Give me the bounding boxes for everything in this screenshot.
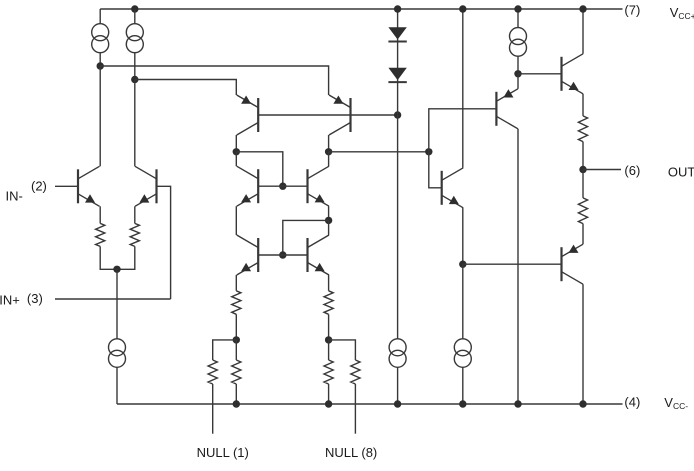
wire node C to base tie <box>236 152 282 186</box>
wire Q7 emitter to R3 <box>235 275 237 291</box>
wire Q14 emitter to R9 <box>582 94 584 116</box>
wire I2 to node B <box>134 52 136 79</box>
resistor R7 <box>324 360 333 384</box>
svg-text:(4): (4) <box>624 395 640 410</box>
wire I6 to VCC- rail <box>462 367 464 404</box>
wire R8 to NULL 8 pin <box>354 384 356 434</box>
wire Q2 emitter to R2 <box>134 206 136 223</box>
wire node E to base tie <box>283 220 329 255</box>
wire Q6 emitter to node E <box>328 206 330 220</box>
junction top rail diodes <box>394 5 401 12</box>
node Q5 Q6 base junction <box>279 183 286 190</box>
transistor Q8 <box>308 235 330 275</box>
wire node G to I6 <box>462 264 464 339</box>
wire IN+ line <box>55 298 171 300</box>
diode D2 <box>388 68 406 82</box>
wire Q5 collector riser <box>235 152 237 166</box>
junction I6 rail <box>459 400 466 407</box>
transistor Q5 <box>237 166 259 206</box>
node Q7 Q8 base junction <box>279 251 286 258</box>
svg-text:(6): (6) <box>624 163 640 178</box>
wire Q7 Q8 base line <box>258 254 307 256</box>
junction Q20 rail <box>579 400 586 407</box>
wire node G to Q20 base <box>463 263 562 265</box>
node null-8 junction <box>325 336 332 343</box>
transistor Q14 <box>562 54 584 94</box>
node tail junction <box>113 266 120 273</box>
resistor R5 <box>232 360 241 384</box>
wire Q2 collector riser <box>134 80 136 167</box>
wire R10 to Q20 emitter <box>582 224 584 245</box>
transistor Q1 <box>78 166 100 206</box>
wire Q1 emitter to R1 <box>99 206 101 223</box>
node OUT junction <box>579 166 586 173</box>
node H junction <box>514 70 521 77</box>
current source I1 <box>92 24 109 53</box>
resistor R4 <box>324 291 333 315</box>
wire OUT pin lead <box>583 169 621 171</box>
wire Q3 Q4 base line <box>258 114 397 116</box>
svg-text:IN+: IN+ <box>0 292 20 307</box>
svg-text:IN-: IN- <box>6 188 23 203</box>
wire Q14 collector to top rail <box>582 9 584 54</box>
node C junction <box>233 148 240 155</box>
junction R5 rail <box>233 400 240 407</box>
current source I5 <box>389 339 406 368</box>
wire Q9 collector to VCC- rail <box>517 129 519 404</box>
transistor Q7 <box>237 235 259 275</box>
current source I4 <box>109 339 126 368</box>
svg-text:(7): (7) <box>624 2 640 17</box>
junction top rail I3 <box>514 5 521 12</box>
wire R9 to OUT node <box>582 142 584 170</box>
wire node D to node F <box>329 151 429 153</box>
transistor Q20 <box>562 244 584 284</box>
wire I4 to VCC- rail <box>116 367 118 404</box>
svg-text:NULL (1): NULL (1) <box>197 445 249 460</box>
resistor R1 <box>96 223 105 246</box>
wire Q1 collector riser <box>99 66 101 166</box>
wire VCC+ top rail <box>100 8 622 10</box>
wire Q2 base riser to IN+ <box>157 186 171 299</box>
junction Q9 rail <box>514 400 521 407</box>
wire I1 to node A <box>99 52 101 66</box>
wire diode string <box>397 9 399 115</box>
node F junction <box>425 148 432 155</box>
wire node A to Q4 emitter <box>100 66 328 95</box>
junction R7 rail <box>325 400 332 407</box>
wire Q3 collector riser <box>235 135 237 152</box>
wire IN- to Q1 base <box>55 185 78 187</box>
svg-text:OUT: OUT <box>668 165 694 180</box>
junction top rail Q14 <box>579 5 586 12</box>
resistor R3 <box>232 291 241 315</box>
svg-text:(3): (3) <box>27 291 43 306</box>
node null-1 junction <box>233 336 240 343</box>
wire bias line to I5 <box>397 115 399 339</box>
junction top rail I2 <box>131 5 138 12</box>
svg-text:(2): (2) <box>31 178 47 193</box>
wire Q20 collector to VCC- rail <box>582 284 584 404</box>
wire Q4 collector riser <box>328 135 330 152</box>
wire Q5 Q6 base line <box>258 185 307 187</box>
wire I3 to node H <box>517 56 519 74</box>
node D junction <box>325 148 332 155</box>
wire node F to Q9 base <box>429 109 497 152</box>
wire top rail to I2 <box>134 9 136 24</box>
wire R3 to null node 1 <box>235 314 237 340</box>
diode D1 <box>388 27 406 41</box>
wire VCC- bottom rail <box>117 403 623 405</box>
wire Q10 collector to top rail <box>462 9 464 168</box>
wire OUT node to R10 <box>582 170 584 198</box>
wire Q8 collector riser <box>328 220 330 235</box>
wire null node to R6 <box>213 340 237 360</box>
wire R4 to null node 8 <box>328 314 330 340</box>
current source I6 <box>454 339 471 368</box>
wire R2 to tail node <box>117 246 135 269</box>
wire top rail to I1 <box>99 9 101 24</box>
wire Q8 emitter to R4 <box>328 275 330 291</box>
wire R5 bottom <box>235 384 237 404</box>
junction top rail Q10 <box>459 5 466 12</box>
transistor Q4 <box>329 95 351 135</box>
transistor Q3 <box>237 95 259 135</box>
transistor Q10 <box>442 168 464 208</box>
wire node B to Q3 emitter <box>135 80 237 96</box>
wire Q9 emitter riser <box>517 74 519 89</box>
resistor R9 <box>578 116 587 142</box>
wire tail to I4 <box>116 269 118 339</box>
resistor R10 <box>578 198 587 224</box>
wire Q5 emitter to Q7 collector <box>235 206 237 235</box>
resistor R6 <box>208 360 217 384</box>
transistor Q6 <box>308 166 330 206</box>
current source I2 <box>126 24 143 53</box>
svg-text:NULL (8): NULL (8) <box>325 445 377 460</box>
wire node F to Q10 base <box>429 152 442 188</box>
node B junction <box>131 76 138 83</box>
wire R6 to NULL 1 pin <box>212 384 214 434</box>
wire Q10 emitter to node G <box>462 208 464 264</box>
wire node H to Q14 base <box>518 73 562 75</box>
node E junction <box>325 217 332 224</box>
wire I5 to VCC- rail <box>397 367 399 404</box>
wire null node to R8 <box>329 340 356 360</box>
wire Q6 collector riser <box>328 152 330 166</box>
wire R5 to VCC- rail <box>235 340 237 360</box>
node G junction <box>459 261 466 268</box>
wire R7 bottom <box>328 384 330 404</box>
current source I3 <box>510 28 527 57</box>
transistor Q9 <box>496 89 518 129</box>
resistor R8 <box>351 360 360 384</box>
wire R7 to VCC- rail <box>328 340 330 360</box>
wire R1 to tail node <box>100 246 117 269</box>
resistor R2 <box>130 223 139 246</box>
node A junction <box>97 62 104 69</box>
transistor Q2 <box>135 166 157 206</box>
wire top rail to I3 <box>517 9 519 28</box>
node base bias junction <box>394 111 401 118</box>
junction I5 rail <box>394 400 401 407</box>
